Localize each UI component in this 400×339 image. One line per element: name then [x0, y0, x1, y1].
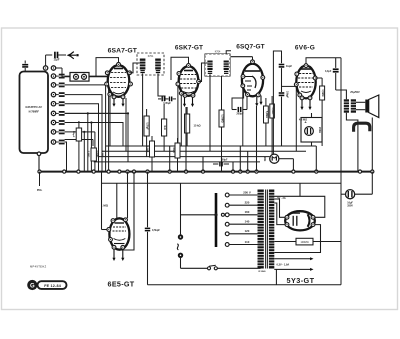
pin 5Y3 at 287,217.3 [285, 215, 289, 219]
IF transformer T1 box [137, 53, 164, 75]
junction on ground bus x=247.7 [246, 170, 249, 173]
wire mains drop [180, 183, 182, 234]
wire 6SK7 heater lead 1 [184, 97, 186, 105]
switch contact S1-4 [51, 92, 55, 96]
junction on ground bus x=78.4 [77, 170, 80, 173]
resistor weave b [91, 148, 96, 161]
wire B+ riser right [340, 58, 342, 285]
resistor 15kΩ [185, 114, 190, 133]
svg-text:K704: K704 [215, 51, 221, 54]
wire switch row 3 to vertical run x=105.6 [65, 85, 106, 172]
tube 6SA7-GT U1 [108, 65, 130, 97]
wire 6SA7 heater lead 1 [113, 99, 115, 105]
wire long oscillator line [65, 112, 128, 114]
resistor 5,3MΩ [264, 106, 269, 123]
svg-text:1kpF: 1kpF [286, 64, 292, 68]
junction on ground bus x=186 [184, 170, 187, 173]
IF T2 primary coil [207, 61, 212, 71]
coil L1 on switch row 2 [59, 74, 65, 76]
wire resistor to B+ riser [313, 241, 341, 243]
RF coil unit box GRUPPO AF [20, 72, 49, 154]
wire antenna lead-in [46, 54, 53, 56]
wire heater return up [275, 269, 277, 284]
wire trimmer box to 6SA7 grid [89, 76, 107, 78]
wire 6SQ7 grid drop [242, 88, 244, 146]
switch contact S1-6 [51, 111, 55, 115]
svg-text:5,3MΩ: 5,3MΩ [265, 111, 267, 118]
wire OT primary bottom to bus [346, 113, 358, 172]
terminal at coil-unit bottom [37, 152, 41, 156]
wire T2 secondary to 6SQ7 top [226, 51, 231, 54]
wire 6V6 top cap to B+ riser [306, 58, 341, 64]
junction weave d [127, 112, 129, 114]
svg-text:1kΩ: 1kΩ [163, 125, 166, 130]
junction on ground bus x=233 [231, 170, 234, 173]
wire 6SK7 suppressor drop [180, 95, 182, 146]
wire weave vertical a [87, 113, 89, 171]
junction weave c [83, 131, 85, 133]
logo medallion [27, 280, 37, 290]
IF T2 secondary coil [224, 61, 229, 71]
output transformer primary [344, 99, 349, 112]
coil L5 on switch row 6 [59, 111, 65, 113]
wire routing line 3 [99, 156, 270, 158]
voltage selector bar [215, 193, 218, 247]
terminal mains L [178, 234, 183, 239]
wire 6SA7 heater drop [125, 98, 127, 151]
wire electrolytic left [341, 193, 346, 195]
wire B+ takeoff [299, 183, 301, 196]
wire switch row 8 to vertical run x=84.3 [65, 132, 85, 172]
svg-text:6SA7-GT: 6SA7-GT [108, 47, 138, 54]
svg-text:3,3pF: 3,3pF [325, 70, 332, 73]
wire mains tap 220 [229, 204, 257, 206]
svg-text:6V6-G: 6V6-G [295, 45, 315, 52]
wire resistor weave a [78, 121, 80, 128]
svg-text:110: 110 [245, 240, 250, 244]
wire weave vertical c [94, 132, 96, 172]
wire routing line 2 [102, 150, 306, 152]
wire routing line 1 [106, 145, 317, 147]
antenna [69, 52, 76, 59]
wire switch row 4 to vertical run x=102.0 [65, 95, 102, 172]
svg-text:160: 160 [245, 210, 250, 214]
terminal mains tap 160 [225, 213, 229, 217]
coil L7 on switch row 8 [59, 130, 65, 132]
wire switch row 5 to vertical run x=98.5 [65, 104, 99, 172]
wire heater lead A [274, 258, 311, 260]
resistor 0,5MΩ detector [270, 104, 275, 118]
wire 6SA7 plate to T1 [130, 63, 140, 73]
wire mains tap 110 [229, 244, 257, 246]
wire 5Y3 plates [270, 196, 325, 217]
wire 6V6 heater lead 2 [309, 100, 311, 108]
terminal mains tap 140 [225, 222, 229, 226]
electrolytic C 16uF 350V [346, 190, 355, 199]
junction on ground bus x=203 [201, 170, 204, 173]
wire 6E5 heater lead 1 [113, 249, 115, 259]
wire T1 secondary to 6SK7 grid [158, 74, 165, 102]
svg-text:0,1MΩ: 0,1MΩ [87, 151, 89, 158]
wire switch row 2 to vertical run x=108.6 [65, 76, 109, 172]
output transformer secondary [351, 99, 356, 112]
wire output resistor legs [321, 78, 323, 86]
wire resistor 30k legs [177, 138, 179, 143]
junction weave b [90, 121, 92, 123]
junction on ground bus x=293.4 [292, 170, 295, 173]
wire 6E5 grid feed [101, 172, 103, 230]
wire resistor 1k legs [163, 104, 165, 119]
wire 6V6 heater lead 1 [301, 100, 303, 108]
svg-text:6E5-GT: 6E5-GT [108, 280, 135, 289]
wire mains tap 250 V [229, 194, 257, 196]
trimmer CT1 [74, 74, 79, 79]
trimmer cap T1 primary [140, 70, 144, 72]
svg-text:6,3V - 1,9A: 6,3V - 1,9A [277, 264, 290, 267]
wire 6E5 plate feed [127, 172, 129, 218]
terminal mains tap 220 [225, 203, 229, 207]
junction on ground bus x=169.7 [168, 170, 171, 173]
svg-text:GRUPPO AF: GRUPPO AF [25, 105, 42, 109]
svg-text:120: 120 [245, 229, 250, 233]
junction on ground bus x=108.6 [107, 170, 110, 173]
svg-text:0,5kpF: 0,5kpF [152, 229, 160, 232]
wire 6SK7 plate to T2 [199, 63, 208, 82]
wire switch row 7 to vertical run x=123.0 [65, 123, 123, 147]
wire 5V winding to 5Y3 [274, 199, 285, 217]
junction weave a [87, 112, 89, 114]
wire speaker frame to bus [371, 118, 373, 172]
switch contact S1-1 [51, 66, 55, 70]
pilot lamp [270, 154, 279, 163]
svg-text:N 786RF: N 786RF [29, 110, 40, 114]
wire long padder line [65, 122, 123, 124]
wire HT centre tap to resistor [274, 241, 296, 243]
tube 6SK7-GT U2 [179, 66, 199, 96]
resistor weave a [76, 128, 81, 141]
wire switch row1 to trimmer box [56, 67, 62, 69]
wire 6SK7 top cap [171, 57, 189, 80]
junction on ground bus x=93.7 [92, 170, 95, 173]
svg-text:350V: 350V [347, 205, 353, 208]
pin 5Y3 at 287,224.6 [285, 223, 289, 227]
wire resistor 15k legs [186, 107, 188, 114]
pin 5Y3 at 313,224.6 [311, 223, 315, 227]
electrolytic in cathode box [305, 127, 314, 136]
svg-text:6SQ7-GT: 6SQ7-GT [236, 44, 265, 51]
svg-text:0,05μF: 0,05μF [146, 122, 148, 130]
svg-text:200Ω: 200Ω [318, 127, 321, 133]
switch contact S1-2 [51, 74, 55, 78]
resistor 1kΩ [162, 119, 167, 136]
IF transformer T2 box [205, 54, 230, 76]
IF T1 primary coil [140, 59, 146, 70]
wire cathode box to bus [311, 142, 313, 146]
trimmer CT2 [82, 74, 87, 79]
switch contact S1-8 [51, 130, 55, 134]
capacitor 10kpF [279, 92, 285, 94]
wire 6SQ7 top cap [252, 57, 254, 60]
wire switch row 9 to vertical run x=66.5 [65, 142, 67, 172]
power switch [207, 267, 210, 270]
svg-text:200pF: 200pF [236, 112, 244, 115]
switch contact S1a [43, 66, 47, 70]
switch contact S1-5 [51, 102, 55, 106]
svg-text:100pF: 100pF [221, 159, 228, 162]
switch contact S1-9 [51, 140, 55, 144]
wire 6E5 cathode return [119, 172, 134, 250]
wire 6SK7 heater lead 2 [192, 97, 194, 105]
power transformer core [265, 190, 267, 269]
junction on ground bus x=64.2 [63, 170, 66, 173]
junction selector [214, 213, 217, 216]
svg-text:15 kΩ: 15 kΩ [194, 124, 201, 128]
plug contact on 160V tap [221, 213, 224, 216]
wire plate to output transformer [336, 90, 347, 99]
wire 6SQ7 heater lead 2 [260, 96, 262, 104]
svg-text:30kΩ: 30kΩ [172, 147, 174, 153]
wire mains tap 140 [229, 223, 257, 225]
logo plate FE 12-84 [38, 281, 67, 289]
speaker cable [354, 123, 370, 132]
junction on ground bus x=240.3 [239, 170, 242, 173]
svg-text:R 5240: R 5240 [258, 270, 266, 273]
wire resistor 0,25 legs [221, 76, 223, 110]
power transformer primary [258, 190, 264, 269]
capacitor 200pF [232, 109, 237, 111]
wire 6E5 heater lead 2 [122, 249, 124, 259]
junction on ground bus x=372.3 [371, 170, 374, 173]
wire 6V6 cathode to box [311, 113, 313, 118]
coil L3 on switch row 4 [59, 92, 65, 94]
wire 200pF left leg [232, 88, 244, 110]
svg-text:0,5MΩ: 0,5MΩ [321, 90, 323, 97]
svg-text:10kpF: 10kpF [285, 91, 288, 98]
junction on ground bus x=360 [358, 170, 361, 173]
wire 6SA7 cathode drop [109, 96, 111, 146]
svg-text:50kpF: 50kpF [72, 131, 74, 138]
coil L6 on switch row 7 [59, 120, 65, 122]
capacitor 0,05uF pair [161, 97, 163, 102]
wire resistor 5,3 legs [265, 98, 267, 106]
junction on ground bus x=316.3 [315, 170, 318, 173]
speaker [365, 100, 368, 113]
wire bus risers [63, 146, 65, 172]
capacitor 0,5kpF [147, 172, 149, 228]
svg-text:4MΩ: 4MΩ [263, 156, 266, 161]
pin 5Y3 at 313,217.3 [311, 215, 315, 219]
wire mains to switch [180, 258, 182, 268]
resistor 30kΩ [175, 143, 180, 158]
wire weave horizontal d [65, 139, 93, 141]
wire T1 primary down [142, 74, 144, 147]
terminal mains N [178, 253, 183, 258]
switch contact S1-3 [51, 83, 55, 87]
resistor 0,25MΩ [219, 110, 224, 127]
capacitor at coil-unit input [24, 61, 26, 64]
junction on ground bus x=147.5 [146, 170, 149, 173]
coil L4 on switch row 5 [59, 101, 65, 103]
trimmer cap T2 secondary [224, 70, 228, 72]
resistor 100MΩ box [296, 238, 313, 245]
svg-text:25μ/50V: 25μ/50V [350, 91, 360, 94]
terminal mains tap 110 [225, 243, 229, 247]
svg-text:250 V: 250 V [243, 190, 251, 194]
wire B+ line [102, 182, 342, 184]
wire T2 primary down [209, 74, 211, 151]
wire selector to mains line [181, 214, 217, 216]
wire 6V6 grid drop [295, 86, 297, 151]
wire mains tap 120 [229, 233, 257, 235]
wire heater return line [148, 284, 342, 286]
ground tag POL [39, 172, 41, 186]
switch contact S1-7 [51, 120, 55, 124]
svg-text:140: 140 [245, 220, 250, 224]
wire 6SA7 heater lead 2 [122, 99, 124, 105]
wire 6E5 target feed [116, 183, 118, 219]
svg-text:5Y3-GT: 5Y3-GT [287, 276, 315, 285]
svg-text:100MΩ: 100MΩ [300, 241, 308, 244]
trimmer unit box [70, 73, 89, 82]
wire 6SQ7 heater lead 1 [256, 97, 258, 105]
svg-text:220: 220 [245, 201, 250, 205]
cathode box 6V6 [301, 118, 322, 143]
svg-text:MP49TEHZ: MP49TEHZ [30, 264, 46, 268]
trimmer cap T2 primary [208, 70, 212, 72]
coil L8 on switch row 9 [59, 140, 65, 142]
wire 6SA7 grid pin to weave [95, 72, 97, 77]
wire resistor 0,05 legs [146, 109, 148, 116]
coil L2 on switch row 3 [59, 83, 65, 85]
wire OT secondary to speaker [356, 101, 365, 103]
wire resistor 0,3 legs [151, 136, 153, 141]
svg-text:POL: POL [37, 188, 43, 192]
wire mains tap 160 [229, 214, 257, 216]
capacitor antenna series 11pF [54, 52, 56, 59]
wire routing line 4 [94, 161, 260, 163]
wire heater lead B [274, 268, 311, 270]
capacitor 100pF [213, 163, 218, 165]
capacitor 1kpF [281, 56, 283, 63]
resistor 0,5MΩ output [320, 86, 325, 100]
terminal mains tap 120 [225, 232, 229, 236]
resistor 0,05MΩ [144, 116, 149, 136]
junction on ground bus x=134 [132, 170, 135, 173]
wire coil-unit bottom to ground bus [38, 156, 40, 172]
wire electrolytic right to bus [355, 193, 373, 195]
tube 6SQ7-GT U3 [242, 64, 263, 97]
svg-text:G: G [30, 283, 35, 289]
tube 6V6-G U4 [296, 66, 315, 99]
svg-text:0,5MΩ: 0,5MΩ [271, 108, 273, 115]
AC symbol [177, 244, 178, 250]
tube 6E5-GT U6 [109, 218, 129, 249]
svg-text:1 MΩ: 1 MΩ [101, 204, 109, 208]
wire switch row 6 to vertical run x=128.0 [65, 113, 128, 161]
wire weave vertical b [90, 123, 92, 172]
IF T1 secondary coil [155, 59, 161, 70]
junction on ground bus x=39.5 [38, 170, 41, 173]
terminal mains tap 250 V [225, 193, 229, 197]
wire switch to primary [217, 267, 260, 269]
wire pilot to bus [279, 158, 294, 160]
svg-text:0,3MΩ: 0,3MΩ [146, 146, 148, 153]
svg-text:6SK7-GT: 6SK7-GT [175, 44, 203, 51]
svg-text:K701: K701 [148, 55, 154, 58]
resistor 0,3MΩ [150, 141, 155, 157]
svg-text:0,05μF: 0,05μF [96, 151, 98, 159]
wire 6SK7 screen drop [177, 86, 179, 151]
power transformer secondary [269, 190, 274, 269]
capacitor 3,3pF tone [335, 58, 337, 68]
wire 1kpF top [273, 51, 281, 157]
wire main ground bus [40, 171, 373, 173]
svg-text:FE 12-84: FE 12-84 [44, 284, 62, 288]
wire resistor 0,5 det legs [271, 96, 273, 104]
junction on ground bus x=127.5 [126, 170, 129, 173]
wire grid feed 6V6 [282, 85, 297, 87]
junction on ground bus x=256.5 [255, 170, 258, 173]
svg-text:11pF: 11pF [54, 58, 60, 62]
svg-text:4,2 MΩ: 4,2 MΩ [299, 119, 307, 122]
wire 200pF right leg [246, 97, 248, 110]
junction on ground bus x=119.4 [118, 170, 121, 173]
tube 5Y3-GT U5 [285, 211, 315, 230]
wire 6SA7 top cap [96, 58, 119, 72]
svg-text:0,25MΩ: 0,25MΩ [221, 114, 223, 122]
trimmer cap T1 secondary [156, 70, 160, 72]
